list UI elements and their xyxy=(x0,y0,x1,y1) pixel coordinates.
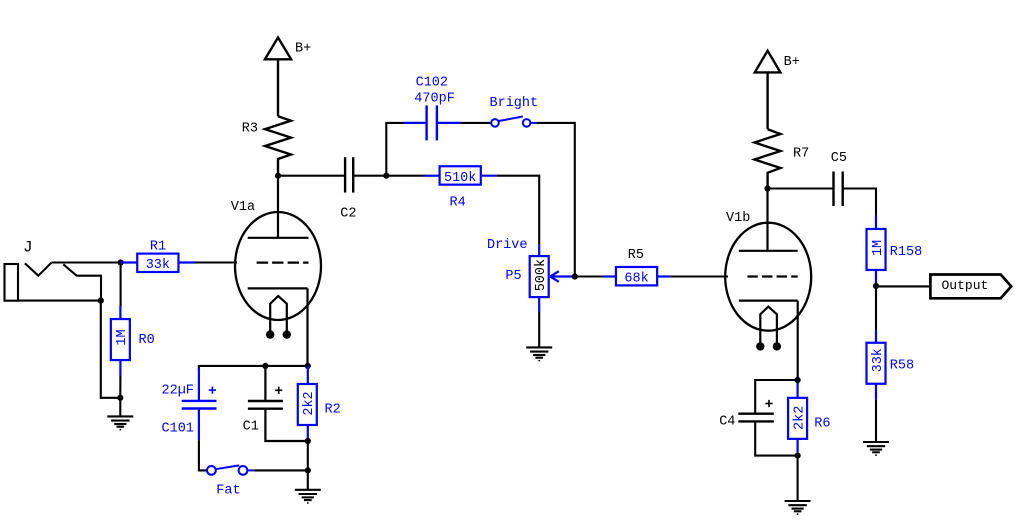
P5 wiper arrow xyxy=(550,271,573,282)
junction dot xyxy=(262,363,268,369)
resistor R0 xyxy=(111,306,130,376)
junction dot xyxy=(305,438,311,444)
wire xyxy=(254,469,308,471)
V1b grid xyxy=(747,275,797,277)
V1a plate xyxy=(248,176,309,238)
V1a heater xyxy=(266,296,291,339)
V1b plate xyxy=(739,189,798,251)
ground xyxy=(107,398,133,431)
wire xyxy=(101,301,121,398)
svg-text:500k: 500k xyxy=(534,259,549,291)
svg-text:510k: 510k xyxy=(444,171,476,186)
junction dot xyxy=(98,298,104,304)
B+ power symbol left xyxy=(265,38,291,117)
svg-text:V1b: V1b xyxy=(726,211,750,226)
svg-text:C5: C5 xyxy=(831,151,847,166)
B+ power symbol right xyxy=(755,51,781,130)
wire xyxy=(538,312,540,347)
junction dot xyxy=(795,453,801,459)
wire xyxy=(843,189,876,216)
svg-text:R1: R1 xyxy=(150,240,166,255)
junction dot xyxy=(118,259,124,265)
svg-text:33k: 33k xyxy=(871,348,886,372)
V1a grid xyxy=(257,262,309,264)
wire xyxy=(768,187,834,189)
svg-text:R5: R5 xyxy=(628,248,644,263)
capacitor C2 xyxy=(345,157,353,192)
wire xyxy=(307,441,309,470)
capacitor C5 xyxy=(834,172,843,207)
wire xyxy=(199,366,308,369)
capacitor C102 xyxy=(404,105,461,140)
C101 polarity + xyxy=(209,387,216,394)
svg-text:C2: C2 xyxy=(340,207,356,222)
junction dot xyxy=(305,467,311,473)
ground xyxy=(295,490,321,504)
wire xyxy=(797,456,799,501)
potentiometer P5 xyxy=(530,244,549,312)
wire xyxy=(278,175,345,177)
wire xyxy=(120,263,122,307)
svg-text:C101: C101 xyxy=(162,422,194,437)
wire xyxy=(199,440,207,470)
junction dot xyxy=(305,363,311,369)
resistor R6 xyxy=(788,383,807,453)
svg-text:68k: 68k xyxy=(624,271,648,286)
switch Fat xyxy=(207,465,254,474)
svg-text:P5: P5 xyxy=(505,269,521,284)
wire xyxy=(52,261,124,263)
junction dot xyxy=(275,173,281,179)
svg-text:B+: B+ xyxy=(784,55,800,70)
wire xyxy=(461,122,491,124)
V1b cathode xyxy=(739,301,798,380)
capacitor C1 xyxy=(248,366,308,441)
svg-text:Fat: Fat xyxy=(216,483,240,498)
svg-text:C1: C1 xyxy=(243,419,259,434)
wire xyxy=(875,400,877,442)
resistor R2 xyxy=(298,366,317,441)
svg-text:R6: R6 xyxy=(814,417,830,432)
wire xyxy=(755,380,797,414)
wire xyxy=(307,470,309,489)
wire xyxy=(671,275,728,277)
svg-text:R3: R3 xyxy=(242,122,258,137)
wire xyxy=(195,261,237,263)
svg-text:R158: R158 xyxy=(890,245,922,260)
junction dot xyxy=(795,377,801,383)
V1b heater xyxy=(756,307,781,351)
wire xyxy=(575,275,604,277)
svg-text:V1a: V1a xyxy=(231,200,255,215)
svg-text:Drive: Drive xyxy=(487,238,528,253)
wire xyxy=(386,175,424,177)
resistor R3 xyxy=(265,116,291,175)
svg-text:Output: Output xyxy=(942,278,989,293)
resistor R5 xyxy=(603,267,671,285)
resistor R58 xyxy=(867,330,886,400)
svg-text:33k: 33k xyxy=(146,258,170,273)
capacitor C4 xyxy=(738,414,774,422)
wire xyxy=(353,175,386,177)
svg-text:R2: R2 xyxy=(325,402,341,417)
svg-text:R4: R4 xyxy=(450,195,466,210)
svg-text:2k2: 2k2 xyxy=(302,391,317,415)
wire xyxy=(875,286,877,330)
svg-text:R58: R58 xyxy=(890,358,914,373)
output connector xyxy=(930,275,1011,299)
triode V1b envelope xyxy=(725,223,811,331)
switch Bright xyxy=(491,117,537,127)
svg-text:1M: 1M xyxy=(115,329,130,345)
input jack J xyxy=(5,263,102,301)
resistor R158 xyxy=(867,216,886,287)
ground xyxy=(863,442,889,456)
svg-text:Bright: Bright xyxy=(490,96,539,111)
C4 polarity + xyxy=(765,400,772,407)
svg-text:C102: C102 xyxy=(416,75,448,90)
junction dot xyxy=(117,395,123,401)
V1a cathode xyxy=(248,288,308,366)
junction dot xyxy=(572,273,578,279)
junction dot xyxy=(764,185,770,191)
wire xyxy=(876,285,930,287)
wire xyxy=(497,176,540,244)
wire xyxy=(386,123,404,176)
svg-text:22µF: 22µF xyxy=(162,384,194,399)
resistor R7 xyxy=(755,129,781,188)
wire xyxy=(755,421,797,455)
capacitor C101 xyxy=(182,368,217,440)
svg-text:R7: R7 xyxy=(793,147,809,162)
svg-text:J: J xyxy=(23,239,33,257)
ground xyxy=(785,501,811,515)
svg-text:C4: C4 xyxy=(719,415,735,430)
svg-text:R0: R0 xyxy=(139,333,155,348)
triode V1a envelope xyxy=(235,212,321,320)
wire xyxy=(537,123,575,277)
resistor R4 xyxy=(425,166,497,184)
wire xyxy=(119,376,121,398)
ground xyxy=(526,347,552,361)
svg-text:B+: B+ xyxy=(295,42,311,57)
svg-text:2k2: 2k2 xyxy=(792,406,807,430)
svg-text:1M: 1M xyxy=(871,240,886,256)
svg-text:470pF: 470pF xyxy=(414,91,455,106)
junction dot xyxy=(873,283,879,289)
resistor R1 xyxy=(121,254,195,272)
junction dot xyxy=(383,173,389,179)
C1 polarity + xyxy=(275,387,282,394)
